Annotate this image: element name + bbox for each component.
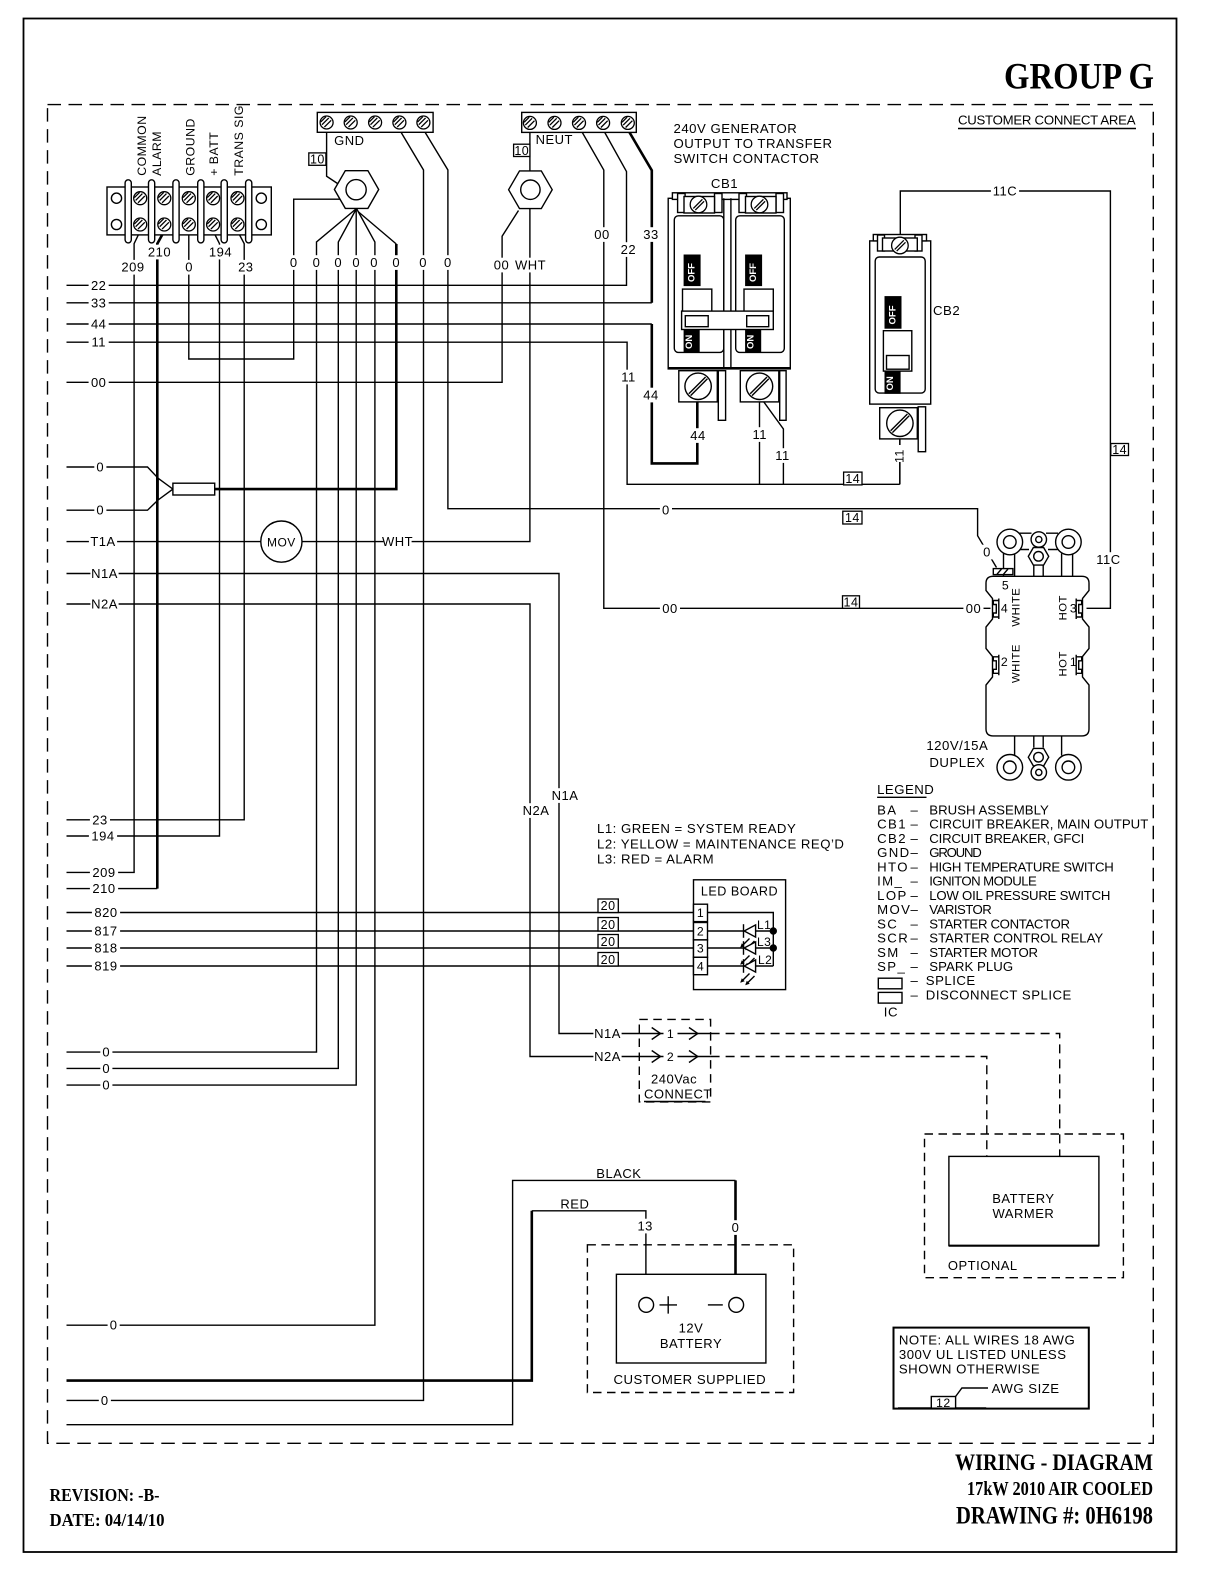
svg-text:11: 11 <box>753 427 768 442</box>
node label 194 <box>89 829 117 844</box>
CB1 top mounting plate <box>672 193 787 200</box>
12V battery box <box>616 1274 766 1363</box>
svg-text:120V/15A: 120V/15A <box>926 738 988 753</box>
CB2 OFF indicator <box>885 297 901 328</box>
svg-text:LOW OIL PRESSURE SWITCH: LOW OIL PRESSURE SWITCH <box>929 888 1111 903</box>
svg-text:2: 2 <box>697 925 704 939</box>
node label 44 <box>641 388 661 403</box>
svg-text:23: 23 <box>92 812 107 827</box>
wire GND bar screw5 to duplex ground <box>423 130 996 568</box>
svg-text:–: – <box>911 802 919 817</box>
svg-text:210: 210 <box>148 245 171 260</box>
svg-text:COMMON: COMMON <box>135 115 149 175</box>
svg-text:44: 44 <box>690 428 705 443</box>
svg-text:STARTER CONTROL RELAY: STARTER CONTROL RELAY <box>929 931 1103 946</box>
svg-text:0: 0 <box>290 255 298 270</box>
battery + terminal <box>639 1298 654 1313</box>
node label 0 <box>981 545 993 560</box>
wire 0 GROUND terminal to GND hex <box>189 199 341 359</box>
svg-text:L1: GREEN = SYSTEM READY: L1: GREEN = SYSTEM READY <box>597 821 796 836</box>
wire 210 riser (bold) <box>157 231 164 889</box>
svg-text:00: 00 <box>494 258 509 273</box>
svg-text:11: 11 <box>893 449 907 463</box>
AWG box 14 <box>844 472 862 485</box>
svg-text:820: 820 <box>94 905 117 920</box>
svg-text:–: – <box>911 916 919 931</box>
svg-text:22: 22 <box>91 278 106 293</box>
node label 819 <box>92 959 120 974</box>
svg-text:LOP: LOP <box>877 888 908 903</box>
LED L2 <box>708 965 774 967</box>
battery dashed box <box>587 1245 793 1393</box>
svg-text:L1: L1 <box>757 918 771 932</box>
terminal block TB1 body <box>107 187 271 235</box>
wire 33 bus <box>67 302 652 304</box>
node label WHT <box>383 534 411 549</box>
svg-text:14: 14 <box>845 472 860 486</box>
wire 819 <box>67 965 694 967</box>
node label 0 <box>442 255 454 270</box>
svg-text:OUTPUT TO TRANSFER: OUTPUT TO TRANSFER <box>674 136 833 151</box>
CB2 top mounting <box>873 235 926 241</box>
TB1 mounting holes <box>111 193 121 203</box>
wire 0 stub to GND fan 3 <box>67 209 357 1086</box>
AWG size callout <box>898 1388 988 1408</box>
svg-text:MOV: MOV <box>267 535 296 549</box>
svg-text:HIGH TEMPERATURE SWITCH: HIGH TEMPERATURE SWITCH <box>929 859 1114 874</box>
svg-text:14: 14 <box>845 511 860 525</box>
svg-text:CB1: CB1 <box>877 817 907 832</box>
node label 11 <box>618 370 638 385</box>
AWG box 10 (NEUT) <box>514 144 530 156</box>
node label 23 at TB1 <box>236 260 256 275</box>
svg-text:WHT: WHT <box>515 258 546 273</box>
svg-text:OFF: OFF <box>888 305 899 324</box>
node label N2A <box>522 803 550 818</box>
duplex terminal screw 3 <box>1076 599 1082 620</box>
node label 818 <box>92 941 120 956</box>
CB1 ON indicator left <box>684 330 699 351</box>
wire 11C CB2 to duplex hot <box>900 191 1110 608</box>
node label WHT <box>516 258 544 273</box>
wire GND bar screw1 to hex <box>327 132 338 183</box>
svg-text:23: 23 <box>238 260 253 275</box>
svg-text:SC: SC <box>877 916 898 931</box>
svg-text:–: – <box>911 845 919 860</box>
customer connect area dashed border <box>48 105 1154 1444</box>
CB2 ON indicator <box>885 372 900 393</box>
svg-text:00: 00 <box>966 601 981 616</box>
node label 817 <box>92 924 120 939</box>
svg-text:GROUND: GROUND <box>184 118 198 176</box>
svg-text:0: 0 <box>96 503 104 518</box>
CB2 body <box>870 241 931 404</box>
svg-text:BA: BA <box>877 802 897 817</box>
CB1 left lug <box>679 371 718 402</box>
wire 11 bus <box>67 342 900 484</box>
splice junction triangle <box>158 478 173 500</box>
LED board terminal 3 <box>694 940 708 957</box>
svg-text:1: 1 <box>1070 655 1077 669</box>
svg-text:HOT: HOT <box>1058 595 1070 620</box>
AWG box 20 <box>598 935 618 949</box>
LED board node dot 1 <box>770 928 776 934</box>
wire 0 stub to GND fan 1 <box>67 209 357 1053</box>
node label 209 at TB1 <box>119 260 147 275</box>
svg-text:818: 818 <box>94 941 117 956</box>
svg-text:0: 0 <box>96 460 104 475</box>
LED L1 <box>708 930 774 932</box>
wire 818 <box>67 947 694 949</box>
svg-text:0: 0 <box>662 503 670 518</box>
svg-text:DISCONNECT SPLICE: DISCONNECT SPLICE <box>926 988 1072 1003</box>
svg-text:STARTER MOTOR: STARTER MOTOR <box>929 945 1038 960</box>
svg-text:ON: ON <box>745 335 756 349</box>
svg-text:–: – <box>911 945 919 960</box>
svg-text:00: 00 <box>594 227 609 242</box>
svg-text:–: – <box>911 959 919 974</box>
wire 22 bus <box>67 130 627 286</box>
AWG box 20 <box>598 953 618 967</box>
wire battery positive feed (bold) <box>67 1211 532 1381</box>
svg-text:WHT: WHT <box>382 534 413 549</box>
battery warmer box <box>949 1156 1099 1245</box>
wire CB2 lug lead <box>899 438 901 484</box>
LED board outline <box>694 880 786 990</box>
svg-text:33: 33 <box>91 295 106 310</box>
svg-text:WIRING - DIAGRAM: WIRING - DIAGRAM <box>955 1450 1153 1476</box>
svg-text:STARTER CONTACTOR: STARTER CONTACTOR <box>929 916 1070 931</box>
duplex screw 5 (ground, side view) <box>993 569 1013 575</box>
svg-text:L3: RED = ALARM: L3: RED = ALARM <box>597 852 714 867</box>
AWG box 14 <box>843 511 862 524</box>
wire N2A <box>67 604 711 1057</box>
svg-text:HTO: HTO <box>877 859 909 874</box>
svg-text:209: 209 <box>92 865 115 880</box>
svg-text:17kW 2010 AIR COOLED: 17kW 2010 AIR COOLED <box>967 1478 1153 1500</box>
svg-text:20: 20 <box>601 899 616 913</box>
svg-text:GND: GND <box>334 133 364 148</box>
svg-text:11: 11 <box>621 370 636 385</box>
wire N1A <box>67 574 711 1034</box>
svg-text:CIRCUIT BREAKER, MAIN OUTPU: CIRCUIT BREAKER, MAIN OUTPUT <box>929 817 1149 832</box>
AWG box 20 <box>598 899 618 913</box>
svg-text:–: – <box>911 831 919 846</box>
svg-text:GND: GND <box>877 845 911 860</box>
svg-text:0: 0 <box>352 255 360 270</box>
CB1 right lug <box>740 371 779 402</box>
svg-text:DUPLEX: DUPLEX <box>929 755 985 770</box>
svg-text:BLACK: BLACK <box>596 1166 641 1181</box>
svg-text:ON: ON <box>684 335 695 349</box>
svg-text:AWG SIZE: AWG SIZE <box>992 1381 1060 1396</box>
node label 0 <box>94 460 106 475</box>
wire 23 to terminal block <box>67 231 245 820</box>
svg-text:SCR: SCR <box>877 931 909 946</box>
svg-text:0: 0 <box>313 255 321 270</box>
svg-text:2: 2 <box>1001 655 1008 669</box>
svg-text:2: 2 <box>667 1050 674 1064</box>
wire NEUT bar screw1 to hex <box>529 132 531 170</box>
svg-text:210: 210 <box>92 881 115 896</box>
svg-text:TRANS SIG: TRANS SIG <box>232 105 246 176</box>
wire MOV to WHT riser <box>302 209 530 542</box>
CB2 lug <box>880 408 918 439</box>
wire N1A dashed to warmer <box>711 1034 1060 1157</box>
svg-text:N1A: N1A <box>552 788 579 803</box>
node label 0 <box>108 1318 120 1333</box>
node label 0 <box>730 1220 742 1235</box>
svg-text:00: 00 <box>91 375 106 390</box>
svg-text:SP_: SP_ <box>877 959 906 974</box>
node label N1A <box>593 1026 621 1041</box>
duplex receptacle body <box>986 576 1089 736</box>
wire 0 stub lower to splice <box>67 500 159 510</box>
CB1 handle right <box>744 289 773 312</box>
node label 11C <box>991 184 1019 199</box>
CB1 bottom pins <box>718 371 725 421</box>
node label 0 <box>332 255 344 270</box>
wire 00 bus to NEUT hex <box>67 211 519 383</box>
CB1 OFF indicator right <box>746 255 762 285</box>
TB1 barrier bars <box>125 180 131 243</box>
AWG box 20 <box>598 918 618 932</box>
svg-text:14: 14 <box>1112 443 1127 457</box>
wire battery negative feed <box>67 1180 736 1424</box>
svg-text:N2A: N2A <box>523 803 550 818</box>
svg-text:194: 194 <box>91 829 114 844</box>
wire 11 riser to CB1 right lug <box>759 400 761 484</box>
svg-text:13: 13 <box>637 1219 652 1234</box>
node label 11 rotated at CB2 <box>893 445 906 462</box>
node label 33 <box>641 227 661 242</box>
svg-text:L2: YELLOW = MAINTENANCE R: L2: YELLOW = MAINTENANCE REQ’D <box>597 837 844 852</box>
LED board terminal 2 <box>694 923 708 940</box>
node label 0 <box>350 255 362 270</box>
svg-text:IGNITON MODULE: IGNITON MODULE <box>929 874 1037 889</box>
svg-text:OFF: OFF <box>748 263 759 282</box>
svg-text:817: 817 <box>94 924 117 939</box>
node label 0 <box>100 1061 112 1076</box>
svg-text:NEUT: NEUT <box>536 132 573 147</box>
svg-text:4: 4 <box>1001 602 1008 616</box>
svg-text:11C: 11C <box>1096 552 1120 567</box>
wire 0 stub to GND bar screw4 <box>67 130 424 1401</box>
node label 11C <box>1094 552 1122 567</box>
svg-text:22: 22 <box>621 242 636 257</box>
svg-text:BATTERY: BATTERY <box>660 1336 722 1351</box>
svg-text:20: 20 <box>601 918 616 932</box>
svg-text:4: 4 <box>697 960 704 974</box>
node label 0 <box>417 255 429 270</box>
GND stud hex nut <box>334 171 378 209</box>
AWG box 14 <box>1111 444 1129 456</box>
svg-text:3: 3 <box>1070 602 1077 616</box>
node label 0 <box>660 503 672 518</box>
svg-text:194: 194 <box>209 245 232 260</box>
svg-text:SWITCH CONTACTOR: SWITCH CONTACTOR <box>674 151 820 166</box>
node label 22 <box>89 278 109 293</box>
node label 820 <box>92 905 120 920</box>
svg-text:1: 1 <box>697 906 704 920</box>
svg-text:0: 0 <box>334 255 342 270</box>
svg-text:SHOWN OTHERWISE: SHOWN OTHERWISE <box>899 1362 1040 1377</box>
wire N2A dashed to warmer <box>711 1057 987 1157</box>
AWG box 14 <box>843 596 860 609</box>
node label 0 <box>390 255 402 270</box>
node label 00 <box>491 258 511 273</box>
node label 33 <box>89 296 109 311</box>
node label 00 <box>592 227 612 242</box>
note box <box>894 1328 1089 1409</box>
svg-text:1: 1 <box>667 1027 674 1041</box>
wire BLACK drop to battery - (bold) <box>734 1180 737 1297</box>
node label 0 <box>100 1078 112 1093</box>
wire 11 riser to CB2 lug <box>899 438 901 484</box>
wire 817 <box>67 930 694 932</box>
svg-text:–: – <box>911 888 919 903</box>
CB1 handle left <box>683 289 712 312</box>
node label N1A <box>90 566 118 581</box>
wire 11 diagonal from CB1 lug <box>761 398 783 484</box>
node label 210 <box>90 881 118 896</box>
AWG box 10 (GND) <box>309 153 326 165</box>
node label 00 <box>89 375 109 390</box>
svg-text:DATE: 04/14/10: DATE: 04/14/10 <box>50 1510 165 1530</box>
svg-text:HOT: HOT <box>1058 651 1070 676</box>
svg-text:11: 11 <box>775 448 790 463</box>
svg-text:CUSTOMER SUPPLIED: CUSTOMER SUPPLIED <box>613 1372 766 1387</box>
svg-text:12V: 12V <box>679 1321 704 1336</box>
duplex terminal screw 2 <box>993 655 999 676</box>
node label N2A <box>593 1049 621 1064</box>
node label 0 <box>368 255 380 270</box>
svg-text:MOV: MOV <box>877 902 911 917</box>
svg-text:209: 209 <box>121 260 144 275</box>
svg-text:0: 0 <box>732 1220 740 1235</box>
node label 11 <box>750 427 770 442</box>
node label 0 at TB1 <box>183 260 195 275</box>
CB1 handle tie bar <box>682 311 774 329</box>
svg-text:–: – <box>911 874 919 889</box>
wire 194 to terminal block <box>67 231 220 836</box>
node label 209 <box>90 865 118 880</box>
battery - terminal <box>729 1298 744 1313</box>
node label 0 <box>100 1045 112 1060</box>
CB1 top screw housings <box>684 197 715 214</box>
node label T1A <box>89 534 117 549</box>
wire 44 bus <box>67 323 652 325</box>
LED L3 <box>708 947 774 949</box>
wire splice output to GND hex (bold) <box>215 244 397 489</box>
svg-text:14: 14 <box>844 596 859 610</box>
node label 11 <box>89 335 109 350</box>
wire 44 drop to CB1 lug (bold) <box>652 324 698 463</box>
node label 13 <box>635 1219 655 1234</box>
svg-text:–: – <box>911 973 919 988</box>
svg-text:L2: L2 <box>758 953 772 967</box>
svg-text:L3: L3 <box>757 935 771 949</box>
svg-text:0: 0 <box>392 255 400 270</box>
svg-text:0: 0 <box>419 255 427 270</box>
CB1 OFF indicator left <box>684 255 700 285</box>
node label 22 <box>618 242 638 257</box>
svg-text:NOTE: ALL WIRES 18 AWG: NOTE: ALL WIRES 18 AWG <box>899 1332 1075 1347</box>
CB2 side pin <box>918 407 925 452</box>
wire 0 stub to GND fan 2 <box>67 209 357 1069</box>
svg-text:–: – <box>911 859 919 874</box>
node label N1A <box>551 788 579 803</box>
varistor MOV <box>261 521 302 562</box>
wire 0 stub upper to splice <box>67 467 159 478</box>
duplex terminal screw 4 <box>993 599 999 620</box>
svg-text:LED BOARD: LED BOARD <box>701 885 778 899</box>
connector pin 2 chevrons <box>652 1051 661 1063</box>
svg-text:N2A: N2A <box>594 1049 621 1064</box>
svg-text:BRUSH ASSEMBLY: BRUSH ASSEMBLY <box>929 802 1049 817</box>
wire 00 NEUT bar to duplex white <box>581 130 991 609</box>
svg-text:OPTIONAL: OPTIONAL <box>948 1258 1018 1273</box>
TB1 screws <box>134 192 147 205</box>
svg-text:20: 20 <box>601 953 616 967</box>
svg-text:N1A: N1A <box>91 566 118 581</box>
node label 0 <box>288 255 300 270</box>
svg-text:3: 3 <box>697 942 704 956</box>
node label 00 <box>963 601 983 616</box>
svg-text:240Vac: 240Vac <box>651 1072 697 1087</box>
svg-text:GROUP G: GROUP G <box>1004 57 1154 98</box>
node label 23 <box>90 813 110 828</box>
svg-text:+ BATT: + BATT <box>207 132 221 176</box>
legend splice symbol <box>878 978 902 989</box>
svg-text:0: 0 <box>370 255 378 270</box>
svg-text:CIRCUIT BREAKER, GFCI: CIRCUIT BREAKER, GFCI <box>929 831 1085 846</box>
svg-text:T1A: T1A <box>90 534 115 549</box>
wire 209 to terminal block <box>67 231 141 872</box>
node label 0 <box>311 255 323 270</box>
duplex top strap <box>1004 553 1015 576</box>
legend disconnect splice symbol <box>878 992 902 1003</box>
wire 0 stub to GND fan 4 <box>67 209 375 1326</box>
svg-text:REVISION: -B-: REVISION: -B- <box>50 1485 160 1505</box>
svg-text:–: – <box>911 817 919 832</box>
CB1 ON indicator right <box>746 330 761 351</box>
svg-text:0: 0 <box>983 545 991 560</box>
svg-text:ALARM: ALARM <box>150 131 164 176</box>
LED board terminal 1 <box>694 904 708 921</box>
svg-text:CUSTOMER CONNECT AREA: CUSTOMER CONNECT AREA <box>958 113 1136 128</box>
node label N2A <box>90 597 118 612</box>
svg-text:CB2: CB2 <box>933 303 960 318</box>
svg-text:10: 10 <box>514 144 529 158</box>
svg-text:5: 5 <box>1002 579 1009 593</box>
svg-text:WHITE: WHITE <box>1011 644 1023 683</box>
svg-text:44: 44 <box>91 317 106 332</box>
svg-text:IC: IC <box>884 1005 898 1020</box>
svg-text:33: 33 <box>643 227 658 242</box>
svg-text:0: 0 <box>102 1061 110 1076</box>
node label 11 <box>772 448 792 463</box>
svg-text:SPARK PLUG: SPARK PLUG <box>929 959 1013 974</box>
svg-text:IM_: IM_ <box>877 874 903 889</box>
wire 210 to terminal block <box>67 888 158 890</box>
svg-text:CB2: CB2 <box>877 831 907 846</box>
LED board anode bus <box>708 913 774 967</box>
wire T1A to MOV <box>67 541 261 543</box>
NEUT stud hex nut <box>509 171 553 209</box>
LED board node dot 2 <box>770 945 776 951</box>
svg-text:N2A: N2A <box>91 597 118 612</box>
